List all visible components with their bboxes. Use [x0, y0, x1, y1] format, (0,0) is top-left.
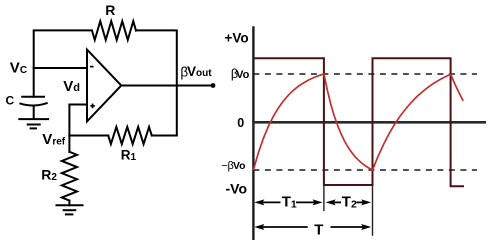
svg-text:+Vo: +Vo [225, 31, 249, 46]
svg-text:-Vo: -Vo [226, 181, 248, 197]
svg-text:Vo: Vo [233, 161, 245, 172]
svg-text:T: T [314, 222, 323, 239]
svg-text:Vo: Vo [236, 69, 250, 81]
svg-text:R: R [105, 2, 115, 18]
svg-text:0: 0 [237, 116, 244, 130]
svg-text:C: C [6, 93, 15, 107]
